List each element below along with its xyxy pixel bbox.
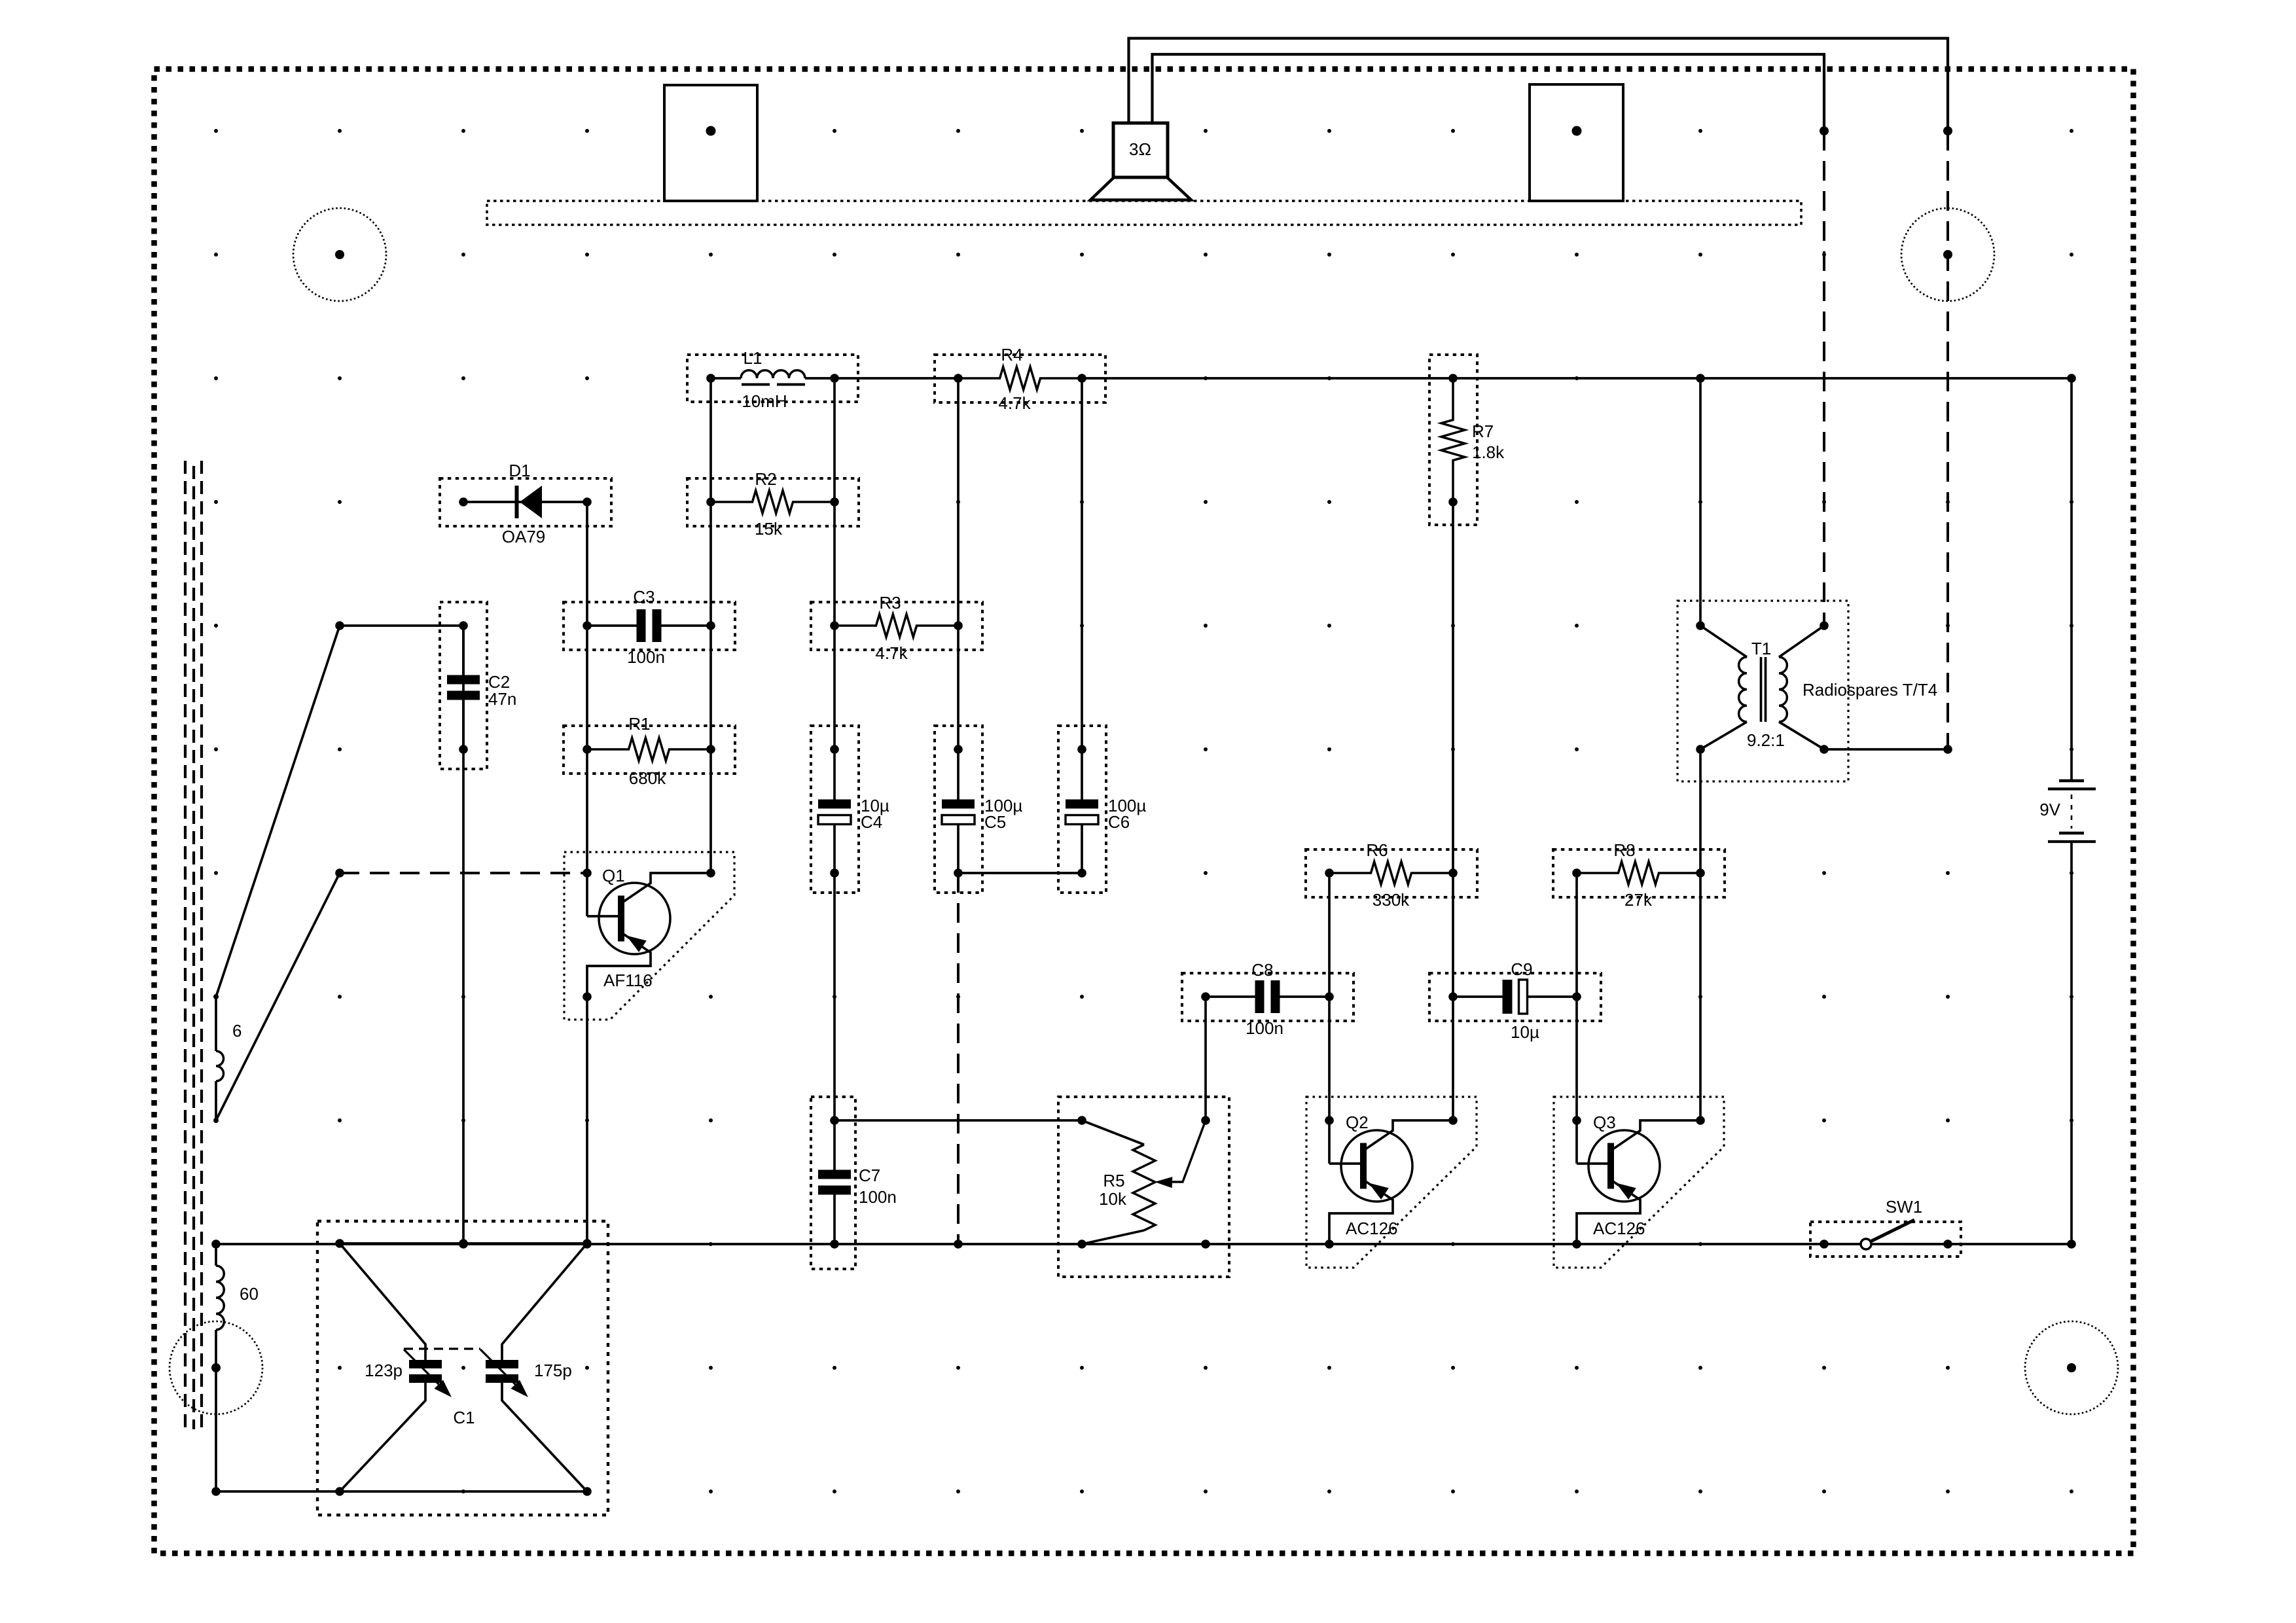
transistor Q1 AF116 bbox=[586, 873, 588, 916]
svg-text:D1: D1 bbox=[509, 461, 530, 480]
junction SW1 right bbox=[1943, 1240, 1952, 1249]
svg-text:L1: L1 bbox=[744, 348, 762, 368]
junction C1 top-left bbox=[335, 1239, 344, 1248]
junction R4 left bbox=[954, 374, 963, 383]
wire C3 to R1 left bbox=[586, 626, 588, 749]
page border frame bbox=[154, 69, 2134, 1554]
junction R7 top bbox=[1448, 374, 1458, 383]
dashed wire to T1 secondary top bbox=[1823, 131, 1825, 626]
wire L1 right down bbox=[833, 378, 836, 502]
svg-text:100n: 100n bbox=[627, 647, 665, 667]
inductor L1 box bbox=[687, 355, 858, 402]
resistor R6 330k bbox=[1329, 862, 1453, 885]
capacitor C7 box bbox=[811, 1097, 855, 1269]
wire speaker - to right drop bbox=[1153, 54, 1825, 131]
capacitor C5 box bbox=[935, 726, 982, 893]
junction T1 secondary bottom bbox=[1820, 745, 1829, 754]
junction top rail right corner bbox=[2067, 374, 2076, 383]
speaker LS1 3ohm bbox=[1090, 123, 1191, 200]
capacitor C3 100n bbox=[587, 624, 637, 627]
junction C6 bottom bbox=[1077, 868, 1086, 878]
junction R8 right bbox=[1696, 868, 1705, 878]
dashed wire to T1 secondary bottom link bbox=[1946, 131, 1949, 749]
svg-text:4.7k: 4.7k bbox=[998, 393, 1031, 413]
junction R7 bottom bbox=[1448, 497, 1458, 507]
junction C1 bottom-left bbox=[335, 1487, 344, 1496]
svg-text:C1: C1 bbox=[453, 1408, 475, 1427]
transformer T1 core bbox=[1760, 657, 1763, 722]
svg-text:Radiospares T/T4: Radiospares T/T4 bbox=[1803, 680, 1937, 700]
svg-text:Q2: Q2 bbox=[1346, 1113, 1369, 1132]
junction L1 right bbox=[830, 374, 839, 383]
wire Q1 emitter to ground bbox=[586, 997, 588, 1244]
junction R3 right bbox=[954, 621, 963, 630]
switch SW1 bbox=[1861, 1220, 1948, 1249]
inductor L1 10mH bbox=[711, 370, 834, 385]
svg-text:60: 60 bbox=[240, 1284, 259, 1304]
transistor Q1 outline bbox=[564, 852, 734, 1020]
capacitor C9 box bbox=[1429, 973, 1601, 1021]
svg-text:C7: C7 bbox=[859, 1166, 880, 1185]
resistor R6 box bbox=[1306, 849, 1477, 897]
transformer T1 box bbox=[1677, 601, 1848, 781]
junction C3 left bbox=[583, 621, 592, 630]
junction Q2 emitter ground bbox=[1325, 1240, 1334, 1249]
mounting hole top-right bbox=[1901, 208, 1994, 301]
junction C7 top bbox=[830, 1116, 839, 1125]
wire R1 to Q1 base bbox=[586, 749, 588, 873]
resistor R7 1.8k bbox=[1441, 378, 1465, 502]
junction C8 left bbox=[1201, 992, 1210, 1001]
wire L1 left down bbox=[709, 378, 712, 502]
junction R2 left bbox=[706, 497, 715, 507]
svg-text:27k: 27k bbox=[1624, 890, 1653, 910]
junction Q1 collector bbox=[706, 868, 715, 878]
transistor Q3 outline bbox=[1554, 1097, 1724, 1268]
svg-text:C6: C6 bbox=[1108, 812, 1130, 832]
junction T1 primary bottom bbox=[1696, 745, 1705, 754]
svg-text:R8: R8 bbox=[1613, 840, 1635, 860]
junction R5 ground node bbox=[1201, 1240, 1210, 1249]
chassis bar (dotted) bbox=[487, 201, 1801, 225]
bracket block left bbox=[664, 85, 757, 201]
svg-text:R5: R5 bbox=[1103, 1171, 1124, 1190]
junction Q3 emitter ground bbox=[1572, 1240, 1581, 1249]
transformer T1 secondary bbox=[1779, 626, 1824, 749]
svg-text:15k: 15k bbox=[755, 519, 783, 539]
transistor Q2 outline bbox=[1306, 1097, 1477, 1268]
svg-text:10µ: 10µ bbox=[1511, 1022, 1539, 1042]
wire detector node to C2 top bbox=[340, 624, 463, 627]
junction node antenna top bbox=[335, 621, 344, 630]
wire D1 to C3 bbox=[586, 502, 588, 626]
junction C9 left bbox=[1448, 992, 1458, 1001]
svg-text:100n: 100n bbox=[859, 1187, 897, 1207]
junction R1 right bbox=[706, 745, 715, 754]
svg-text:R7: R7 bbox=[1472, 421, 1494, 441]
wire R8 right T1 to Q3 collector bbox=[1699, 749, 1702, 1120]
svg-text:C5: C5 bbox=[984, 812, 1006, 832]
dashed wire C5 to ground bbox=[957, 873, 960, 1244]
wire C7 to R5 bbox=[834, 1119, 1082, 1122]
capacitor C7 100n bbox=[833, 1120, 836, 1170]
wire R7 down to Q2 collector bbox=[1452, 502, 1454, 1120]
wire bottom rail bbox=[216, 1243, 2072, 1245]
wire R4 right down to C6 bbox=[1081, 378, 1083, 749]
resistor R7 box bbox=[1429, 355, 1477, 525]
junction Q2 base bbox=[1325, 1116, 1334, 1125]
svg-text:6: 6 bbox=[232, 1021, 242, 1041]
junction Q1 emitter pin bbox=[583, 992, 592, 1001]
junction C3 right bbox=[706, 621, 715, 630]
wire battery column top bbox=[2070, 378, 2073, 779]
capacitor C4 10u bbox=[833, 749, 836, 800]
svg-text:680k: 680k bbox=[629, 768, 666, 788]
wire R6 left down to C8/Q2 bbox=[1328, 873, 1331, 1120]
capacitor C9 10u bbox=[1453, 995, 1503, 998]
svg-text:C3: C3 bbox=[633, 587, 655, 607]
svg-text:OA79: OA79 bbox=[502, 527, 546, 546]
junction C4 top bbox=[830, 745, 839, 754]
svg-text:Q1: Q1 bbox=[602, 866, 625, 885]
junction AGC left bbox=[335, 868, 344, 878]
wire R4 left down bbox=[957, 378, 960, 626]
transformer T1 primary bbox=[1700, 626, 1747, 749]
wire coil6 bottom to AGC node bbox=[216, 873, 340, 1120]
svg-text:47n: 47n bbox=[488, 689, 516, 709]
variable capacitor C1a 123p bbox=[340, 1243, 452, 1491]
svg-text:R6: R6 bbox=[1366, 840, 1388, 860]
junction R6 left bbox=[1325, 868, 1334, 878]
wire top rail bbox=[834, 377, 2072, 380]
junction C6 top bbox=[1077, 745, 1086, 754]
svg-text:R2: R2 bbox=[755, 469, 776, 489]
junction R3 left bbox=[830, 621, 839, 630]
variable capacitor C1b 175p bbox=[480, 1243, 587, 1491]
svg-text:C9: C9 bbox=[1511, 959, 1532, 979]
wire rail down to T1 primary bbox=[1699, 378, 1702, 626]
resistor R2 15k bbox=[711, 491, 834, 514]
svg-text:C8: C8 bbox=[1251, 960, 1273, 980]
svg-text:T1: T1 bbox=[1751, 639, 1771, 658]
junction coil60 top bbox=[211, 1240, 221, 1249]
dashed AGC wire bbox=[340, 872, 587, 874]
capacitor C4 box bbox=[811, 726, 859, 893]
junction Q3 collector bbox=[1696, 1116, 1705, 1125]
capacitor C5 100u bbox=[957, 749, 960, 800]
resistor R2 box bbox=[687, 478, 859, 526]
junction L1 left bbox=[706, 374, 715, 383]
mounting hole bottom-left bbox=[170, 1321, 262, 1414]
junction Q1 emitter ground bbox=[583, 1240, 592, 1249]
resistor R1 680k bbox=[587, 738, 711, 761]
wire speaker + to right drop bbox=[1129, 39, 1948, 132]
junction R5 wiper bbox=[1201, 1116, 1210, 1125]
potentiometer R5 10k bbox=[1082, 1120, 1206, 1244]
transistor Q2 AC126 bbox=[1328, 1120, 1331, 1164]
transistor Q3 AC126 bbox=[1575, 1120, 1578, 1164]
svg-text:9.2:1: 9.2:1 bbox=[1747, 730, 1785, 750]
svg-text:R4: R4 bbox=[1001, 345, 1022, 365]
ferrite rod (dashed) bbox=[185, 461, 202, 1429]
junction C2 ground bbox=[459, 1240, 468, 1249]
junction rail T1 bbox=[1696, 374, 1705, 383]
wire C1 top link bbox=[340, 1242, 587, 1245]
mounting hole top-left bbox=[293, 208, 386, 301]
svg-text:3Ω: 3Ω bbox=[1129, 139, 1151, 159]
tuning capacitor C1 box bbox=[317, 1221, 608, 1515]
junction Q2 collector bbox=[1448, 1116, 1458, 1125]
capacitor C8 100n bbox=[1206, 995, 1255, 998]
junction D1 cathode bbox=[583, 497, 592, 507]
junction Q3 base bbox=[1572, 1116, 1581, 1125]
gang link dashed bbox=[404, 1347, 480, 1349]
svg-text:C4: C4 bbox=[861, 812, 882, 832]
wire C5-C6 bottom link bbox=[958, 872, 1082, 874]
node speaker wire A bbox=[1820, 126, 1829, 135]
battery BT1 9V bbox=[2039, 781, 2096, 842]
wire coil6 top to detector node bbox=[216, 626, 340, 997]
svg-text:123p: 123p bbox=[365, 1361, 403, 1380]
junction R2 right bbox=[830, 497, 839, 507]
junction SW1 left bbox=[1820, 1240, 1829, 1249]
wire R2 right down to R3 bbox=[833, 502, 836, 626]
junction T1 primary top bbox=[1696, 621, 1705, 630]
junction D1 anode bbox=[459, 497, 468, 507]
svg-text:AC126: AC126 bbox=[1346, 1219, 1398, 1238]
svg-text:10mH: 10mH bbox=[742, 391, 787, 411]
wire R8 left down to C9/Q3 bbox=[1575, 873, 1578, 1120]
resistor R4 box bbox=[935, 355, 1105, 402]
junction Q1 base bbox=[583, 868, 592, 878]
wire R2 left down to Q1 collector bbox=[709, 502, 712, 626]
wire T1 secondary bottom to dashed bbox=[1824, 748, 1948, 751]
resistor R3 box bbox=[811, 602, 982, 650]
svg-text:1.8k: 1.8k bbox=[1472, 442, 1505, 462]
junction R6 right bbox=[1448, 868, 1458, 878]
capacitor C2 47n bbox=[462, 626, 465, 675]
junction R5 bottom bbox=[1077, 1240, 1086, 1249]
wire R3 left down to C4 bbox=[833, 626, 836, 749]
svg-text:R1: R1 bbox=[628, 714, 650, 734]
diode D1 OA79 bbox=[463, 486, 587, 518]
svg-text:SW1: SW1 bbox=[1886, 1197, 1922, 1217]
svg-text:Q3: Q3 bbox=[1593, 1113, 1616, 1132]
svg-text:AC126: AC126 bbox=[1593, 1219, 1645, 1238]
junction R4 right bbox=[1077, 374, 1086, 383]
capacitor C2 box bbox=[440, 602, 487, 769]
wire C4 down to C7 bbox=[833, 873, 836, 1120]
svg-text:330k: 330k bbox=[1372, 890, 1410, 910]
svg-text:9V: 9V bbox=[2039, 800, 2060, 819]
junction C7 ground bbox=[830, 1240, 839, 1249]
junction C5 bottom bbox=[954, 868, 963, 878]
resistor R3 4.7k bbox=[834, 615, 958, 637]
svg-text:175p: 175p bbox=[534, 1361, 572, 1380]
resistor R4 4.7k bbox=[958, 367, 1082, 390]
junction R8 left bbox=[1572, 868, 1581, 878]
junction C2 top bbox=[459, 621, 468, 630]
junction T1 secondary return bbox=[1943, 745, 1952, 754]
grid dots bbox=[214, 129, 2073, 1493]
capacitor C6 box bbox=[1058, 726, 1106, 893]
wire C2 column bbox=[462, 626, 465, 1244]
bracket block right bbox=[1530, 84, 1623, 201]
node coil60 mid bbox=[212, 1364, 220, 1372]
junction R5 top bbox=[1077, 1116, 1086, 1125]
junction C4 bottom bbox=[830, 868, 839, 878]
antenna coil 60 turns bbox=[216, 1244, 224, 1491]
resistor R8 27k bbox=[1577, 862, 1700, 885]
junction C2 bottom bbox=[459, 745, 468, 754]
wire battery column bottom bbox=[2070, 842, 2073, 1244]
wire wiper to C8 bbox=[1204, 997, 1207, 1120]
svg-text:10k: 10k bbox=[1099, 1189, 1127, 1209]
capacitor C6 100u bbox=[1081, 749, 1083, 800]
antenna coil 6 turns bbox=[213, 994, 224, 1123]
junction coil60 bottom bbox=[211, 1487, 221, 1496]
wire C1 bottom link bbox=[340, 1490, 587, 1493]
junction bottom rail right corner bbox=[2067, 1240, 2076, 1249]
junction C1 top-mid bbox=[459, 1239, 468, 1248]
resistor R8 box bbox=[1553, 849, 1725, 897]
mounting hole bottom-right bbox=[2025, 1321, 2118, 1414]
diode D1 box bbox=[440, 478, 611, 526]
svg-text:R3: R3 bbox=[879, 593, 901, 613]
junction C5 top bbox=[954, 745, 963, 754]
junction C5 ground bbox=[954, 1240, 963, 1249]
potentiometer R5 box bbox=[1058, 1097, 1229, 1277]
switch SW1 box bbox=[1810, 1222, 1961, 1257]
junction C9 right bbox=[1572, 992, 1581, 1001]
junction T1 secondary top bbox=[1820, 621, 1829, 630]
junction R1 left bbox=[583, 745, 592, 754]
capacitor C3 box bbox=[564, 602, 735, 650]
svg-text:100n: 100n bbox=[1246, 1018, 1283, 1038]
junction C1 bottom-right bbox=[583, 1487, 592, 1496]
node speaker wire B bbox=[1943, 126, 1952, 135]
junction C1 top-right bbox=[583, 1239, 592, 1248]
junction C8 right bbox=[1325, 992, 1334, 1001]
capacitor C8 box bbox=[1182, 973, 1354, 1021]
svg-text:AF116: AF116 bbox=[603, 971, 653, 990]
wire coil60 to C1 bottom bbox=[216, 1490, 340, 1493]
wire R3 right down to C5 bbox=[957, 626, 960, 749]
wire R1 right to Q1 collector bbox=[709, 626, 712, 873]
resistor R1 box bbox=[564, 726, 735, 774]
svg-text:4.7k: 4.7k bbox=[875, 643, 908, 663]
